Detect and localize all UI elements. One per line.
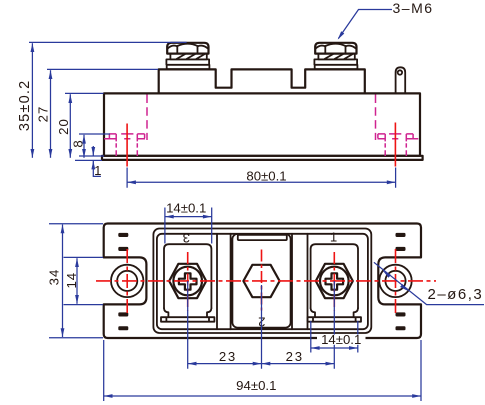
vent slots upper-left [118,233,128,237]
terminal 1 hex bolt head [316,264,353,298]
svg-text:14±0.1: 14±0.1 [321,332,361,347]
terminal box 2 (middle) [232,234,290,328]
terminal box 1 (left) [161,244,214,322]
svg-text:1: 1 [94,163,101,178]
dimension 14±0.1 bottom [311,321,366,353]
module outline (top view) [104,224,421,339]
dimension 34 [46,224,103,338]
dimension 94±0.1 [104,340,421,401]
terminal box 3 (right) [308,244,361,322]
hidden lines left mounting hole (side view) [104,95,147,157]
dimension 8 [70,134,110,158]
centerline module middle vertical [261,250,263,311]
housing raised blocks profile [159,69,365,93]
svg-text:14±0.1: 14±0.1 [166,200,206,215]
centerline left hole (side view) [126,124,128,167]
dimension 80±0.1 [127,168,396,188]
dimension 23 right [262,349,335,365]
dimension 27 [35,69,158,157]
vent slots lower-left [118,312,128,316]
bolt M6 right (nut) [314,43,357,69]
centerline right hole vertical [395,249,397,313]
dimension 35±0.2 [17,42,186,157]
dimension 1 [75,146,104,178]
centerline terminal 3 vertical [187,252,189,311]
vent slots lower-right [396,312,406,316]
aux pin hole [398,70,402,74]
groove between box2 and box3 [292,234,308,329]
module body (side view) [104,93,420,155]
terminal 3 hex bolt head [169,264,206,298]
bolt M6 left (spring washer) [170,54,206,60]
mounting hole left [111,265,143,297]
dimension 23 left [188,349,262,365]
vent slots upper-right [396,233,406,237]
dimension 14 left [64,257,104,304]
svg-text:94±0.1: 94±0.1 [236,378,276,393]
extension lines terminal centers down [188,281,335,369]
svg-text:80±0.1: 80±0.1 [246,168,286,183]
label 3-M6 leader [336,0,433,41]
centerline horizontal (top view) [96,280,436,282]
centerline right hole (side view) [394,123,396,167]
centerline left hole vertical [126,249,128,313]
groove between box1 and box2 [217,234,231,329]
svg-text:8: 8 [70,140,85,147]
dimension 20 [56,93,104,157]
label window slot in box 2 [238,235,287,240]
svg-text:27: 27 [35,106,50,123]
svg-text:1: 1 [330,230,337,245]
svg-text:14: 14 [64,272,79,289]
svg-text:3–M6: 3–M6 [393,0,434,16]
housing lid outer edge (top view) [153,229,371,334]
aux pin terminal [396,67,406,93]
dimension 14±0.1 top [165,200,212,243]
svg-text:3: 3 [183,230,190,245]
mounting hole right [379,265,411,297]
bolt M6 right (flat washers) [314,59,357,69]
svg-text:23: 23 [286,349,304,364]
baseplate lip (side view) [102,156,423,160]
bolt M6 right (spring washer) [318,54,354,60]
svg-text:35±0.2: 35±0.2 [17,80,33,131]
svg-text:20: 20 [56,118,71,135]
bolt M6 left (nut) [167,43,208,54]
svg-text:23: 23 [219,349,237,364]
centerline terminal 1 vertical [333,252,335,311]
svg-text:34: 34 [46,269,61,286]
leader 2-Ø6,3 [374,262,484,304]
terminal 2 hex [243,265,279,297]
hidden lines right mounting hole (side view) [376,95,419,157]
svg-text:2–ø6,3: 2–ø6,3 [428,286,484,303]
bolt M6 left (flat washers) [166,59,209,69]
housing lid inner edge (top view) [157,234,368,329]
